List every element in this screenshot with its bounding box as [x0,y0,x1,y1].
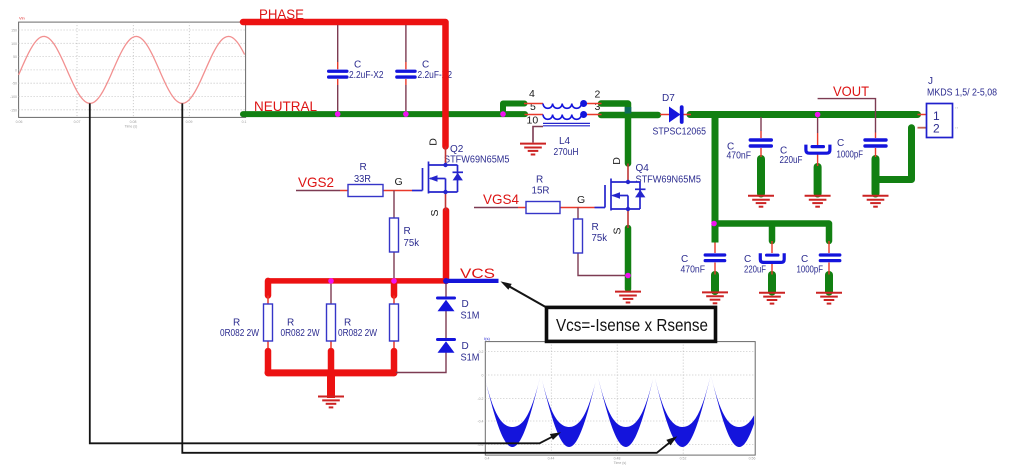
wire ground stub of C220uF bottom row [768,275,776,292]
scope2 inductor current waveform band [485,375,754,447]
ground symbol (L4 shield) [520,144,546,155]
svg-text:2.2uF-X2: 2.2uF-X2 [349,70,384,81]
svg-text:D: D [611,157,623,165]
capacitor C 220uF bottom row (polarized) [765,254,780,257]
diode D S1M upper [436,297,456,300]
pin R33R left [340,190,348,192]
wire sense resistor bottom bus (thick red) [268,369,394,376]
resistor R 75k (Q2) body [390,218,399,252]
pin C1000pF top row upper [875,133,877,139]
svg-text:0.06: 0.06 [16,120,23,124]
wire sense R2 top [330,284,332,305]
pin C470nF bottom row upper [714,243,716,254]
wire VGS2 lead [296,190,340,192]
wire right X2 cap top lead [405,25,407,62]
scope2 gridlines [485,342,755,456]
arrowhead of callout 2 [666,436,677,445]
wire VOUT net label tap to output bus and C1000pF [818,99,876,133]
svg-text:R: R [344,318,351,329]
wire overlap patch at switching node [625,107,632,114]
svg-text:10: 10 [527,115,539,127]
ground symbol (C1000pF bottom row) [816,293,842,304]
pin C1000pF bottom row lower [828,263,830,275]
wire output bus drop to lower capacitor bank [712,115,719,243]
ground symbol (sense resistor network) [318,397,344,408]
wire ground stub of C220uF top row [814,167,822,194]
node VCS junction dot (blue) [443,278,449,284]
sense resistor R3 0R082 body [390,304,399,341]
transistor Q4 STFW69N65M5 (N-MOSFET with body diode) [595,179,646,211]
svg-text:0.48: 0.48 [614,457,621,461]
pin Q4 source [627,209,629,228]
svg-text:C: C [744,254,751,265]
svg-text:270uH: 270uH [554,147,579,158]
pin D7 anode stub [660,114,670,116]
svg-text:MKDS 1,5/ 2-5,08: MKDS 1,5/ 2-5,08 [927,88,997,99]
ground symbol (C1000pF top row) [863,196,889,207]
pin C220uF top row lower [817,154,819,167]
ground symbol (Q4 source) [615,292,641,303]
capacitor C 470nF top row plates [749,138,773,142]
capacitor C 1000pF bottom row plates [819,253,842,256]
pin sense R1 top [267,296,269,305]
pin L4 pin4 stub [524,103,543,105]
pin sense R3 top [393,296,395,305]
wire Q4 source to ground (green) [625,228,632,289]
node junction dot on Q4 source [625,273,631,279]
node junction dot on neutral at right X2 cap [403,111,409,117]
pin L4 pin3 stub [587,114,602,116]
wire left X2 cap top lead [337,25,339,62]
inductor L4 top polarity dot [580,100,587,107]
capacitor C 1000pF top row plates [863,138,887,142]
wire connector pin2 return to ground (green) [877,128,912,180]
wire stub R2 bottom to bus [328,351,335,373]
svg-text:VGS2: VGS2 [298,174,334,190]
pin D7 cathode stub [683,114,692,116]
scope plot 2 (inductor current) frame [485,342,755,456]
wire R75k (Q2) bottom to sense bus [393,252,395,278]
capacitor C 470nF bottom row plates [704,253,727,256]
svg-text:R: R [360,162,367,173]
svg-text:Q4: Q4 [636,163,650,174]
inductor L4 bottom winding [543,115,581,120]
wire neutral riser to L4 pin 4 [503,104,525,115]
svg-text:-50: -50 [12,82,17,86]
svg-text:470nF: 470nF [727,151,752,162]
svg-text:470nF: 470nF [681,265,706,276]
pin left X2 cap bottom [337,79,339,85]
wire stub R3 bottom to bus [391,351,398,373]
pin C470nF top row upper [760,131,762,138]
scope2 x-axis tick labels [485,457,756,466]
pin C220uF top row upper [817,133,819,145]
svg-text:0.52: 0.52 [680,457,687,461]
wire C470nF top row upper lead [760,117,762,131]
resistor R 33R body [348,185,383,197]
svg-text:G: G [577,194,585,206]
svg-text:0.56: 0.56 [749,457,756,461]
svg-text:0.1: 0.1 [242,120,247,124]
node junction dot on sense bus at R2 [328,278,334,284]
wire bottom bus to ground (thick red stem) [327,373,335,398]
svg-text:50: 50 [13,55,17,59]
svg-text:0: 0 [482,374,484,378]
wire ground stub of C1000pF top row [872,159,880,194]
wire VCS node into S1M diode stack [445,284,447,298]
wire NEUTRAL (thick green bus) [243,111,525,117]
probe callout line 2 from sine trough to current plot [182,103,674,452]
wire R75k (Q4) bottom to Q4 source node [578,253,626,276]
pin C470nF bottom row lower [714,263,716,275]
wire right X2 cap bottom lead [405,85,407,112]
wire between S1M diodes [445,311,447,339]
annotation callout arrow from formula box to VCS [505,284,547,308]
svg-text:VOUT: VOUT [833,83,869,99]
sense resistor R1 0R082 body [264,304,273,341]
svg-text:-0.4: -0.4 [477,420,483,424]
svg-text:R: R [287,318,294,329]
wire ground stub of C470nF bottom row [711,275,719,291]
svg-text:-100: -100 [10,95,17,99]
node junction dot on lower capacitor bus [711,221,717,227]
svg-text:D: D [428,138,440,146]
pin right X2 cap bottom [405,79,407,85]
sense resistor R2 0R082 body [327,304,336,341]
svg-text:75k: 75k [404,238,420,249]
pin R15R right to Q4 gate [560,207,595,209]
svg-text:I(s): I(s) [484,336,490,341]
wire lower S1M anode to bottom bus [396,352,446,373]
connector J MKDS box [927,104,953,138]
svg-text:L4: L4 [559,136,571,147]
inductor L4 bottom polarity dot [580,111,587,118]
svg-text:2: 2 [595,89,601,101]
transistor Q2 STFW69N65M5 (N-MOSFET with body diode) [412,162,463,194]
ground symbol (C220uF bottom row) [759,293,785,304]
wire VGS4 lead [474,207,518,209]
scope1 gridlines [19,22,246,117]
pin C220uF bottom row lower [771,263,773,275]
wire Q2 source to sense bus (thick red) [443,211,450,281]
svg-text:D: D [462,299,469,310]
svg-text:1000pF: 1000pF [837,150,864,161]
diode D7 STPSC12065 [669,107,681,123]
scope plot 1 (input AC voltage) frame [19,22,246,117]
capacitor C 2.2uF-X2 left plates [327,70,349,73]
scope2 y-axis tick labels [477,350,483,447]
svg-text:0.09: 0.09 [186,120,193,124]
pin C1000pF top row lower [875,148,877,157]
wire L4 pin10 shield to ground [533,127,543,143]
scope1 x-axis tick labels [16,120,247,129]
svg-text:STPSC12065: STPSC12065 [653,127,707,138]
wire stub top bus to R1 [265,281,272,296]
wire VCS (blue net) [446,279,499,283]
svg-text:C: C [801,254,808,265]
svg-text:Time (s): Time (s) [614,461,627,465]
svg-text:15R: 15R [532,186,550,197]
svg-text:D: D [462,341,469,352]
node junction dot on neutral at L4 riser [500,111,506,117]
svg-text:R: R [233,318,240,329]
svg-text:VGS4: VGS4 [483,191,519,207]
scope1 y-axis tick labels [10,29,17,113]
pin Q2 drain [445,147,447,166]
svg-text:STFW69N65M5: STFW69N65M5 [444,155,510,166]
pin sense R2 bottom [330,341,332,349]
wire sense resistor top bus (thick red) [268,278,446,284]
wire ground stub of C1000pF bottom row [825,275,833,292]
svg-text:R: R [536,175,543,186]
probe callout line 1 from sine trough to current plot [90,103,558,443]
svg-text:S: S [612,227,624,234]
svg-text:Vin: Vin [19,16,25,21]
wire Q4 gate node down to R75k [577,208,579,220]
svg-text:J: J [928,76,933,87]
capacitor C 2.2uF-X2 right plates [395,70,417,73]
svg-text:75k: 75k [592,233,608,244]
capacitor C 220uF top row (polarized) [811,145,826,148]
diode D S1M lower [436,338,456,341]
pin Q2 source [445,192,447,211]
pin C220uF bottom row upper [771,241,773,253]
wire left X2 cap bottom lead [337,85,339,112]
svg-text:Time (s): Time (s) [125,125,138,129]
ground symbol (C470nF top row) [748,196,774,207]
svg-text:0.08: 0.08 [130,120,137,124]
svg-text:1000pF: 1000pF [797,265,824,276]
pin connector J pin2 stub [918,127,927,129]
svg-text:,,: ,, [955,124,959,130]
svg-text:C: C [354,60,361,71]
wire stub top bus to R3 [391,283,398,296]
pin right X2 cap top [405,62,407,69]
node junction dot on sense bus at R3 [391,278,397,284]
pin sense R3 bottom [393,341,395,349]
pin sense R1 bottom [267,341,269,349]
wire Q2 gate node down to R75k [393,191,395,219]
pin L4 pin5 stub [525,114,544,116]
pin R33R right to Q2 gate [383,190,412,192]
wire ground stub of C470nF top row [757,159,765,194]
svg-text:220uF: 220uF [780,155,803,166]
svg-text:150: 150 [11,29,17,33]
svg-text:2: 2 [933,122,940,136]
svg-text:220uF: 220uF [744,265,766,276]
node junction dot on neutral at left X2 cap [335,111,341,117]
wire stub R1 bottom to bus [265,351,272,373]
ground symbol (C220uF top row) [805,196,831,207]
pin C1000pF bottom row upper [828,241,830,253]
svg-text:G: G [395,176,403,188]
svg-text:Vcs=-Isense x Rsense: Vcs=-Isense x Rsense [556,315,708,335]
pin L4 pin2 stub [587,103,602,105]
svg-text:D7: D7 [662,93,675,104]
arrowhead of callout 1 [550,432,561,440]
resistor R 75k (Q4) body [574,219,583,253]
scope1 sine waveform [19,36,245,103]
pin Q4 drain [627,164,629,183]
svg-text:0R082 2W: 0R082 2W [220,328,259,339]
svg-text:0.4: 0.4 [485,457,490,461]
svg-text:STFW69N65M5: STFW69N65M5 [636,175,702,186]
svg-text:S1M: S1M [461,311,480,322]
annotation formula box Vcs=-Isense x Rsense [547,307,716,341]
wire lower capacitor bus (green) [715,224,829,242]
svg-text:0.44: 0.44 [548,457,555,461]
svg-text:100: 100 [11,42,17,46]
svg-text:0R082 2W: 0R082 2W [338,328,377,339]
svg-text:,,: ,, [955,104,959,110]
svg-text:R: R [592,222,599,233]
pin C470nF top row lower [760,148,762,157]
wire PHASE (thick red) down to Q2 drain [243,22,446,147]
svg-text:VCS: VCS [460,265,495,281]
svg-text:S1M: S1M [461,353,480,364]
svg-text:-150: -150 [10,108,17,112]
resistor R 15R body [526,202,560,214]
svg-text:Q2: Q2 [450,144,464,155]
pin left X2 cap top [337,62,339,69]
svg-text:0: 0 [15,68,17,72]
svg-text:0.07: 0.07 [74,120,81,124]
wire C220uF top row upper lead [817,116,819,133]
svg-text:R: R [404,226,411,237]
inductor L4 top winding [543,104,581,109]
ground symbol (C470nF bottom row) [702,292,728,303]
svg-text:33R: 33R [354,174,371,185]
inductor L4 shield lines [543,123,590,125]
svg-text:C: C [837,138,844,149]
pin connector J pin1 stub [918,114,927,116]
wire L4 pin2 to switching node (green) [601,104,628,164]
wire L4 pin3 to D7 anode (green) [601,112,658,119]
svg-text:C: C [422,60,429,71]
svg-text:C: C [681,254,688,265]
svg-text:0R082 2W: 0R082 2W [281,328,320,339]
pin R15R left [518,207,526,209]
svg-text:S: S [429,209,441,216]
wire stub lower bus to C220uF bottom [769,226,776,241]
wire D7 cathode to output bus (thick green) [690,111,918,118]
svg-text:-0.2: -0.2 [477,397,483,401]
node junction dot on output bus at C220uF/VOUT [815,112,821,118]
svg-text:4: 4 [529,88,535,100]
